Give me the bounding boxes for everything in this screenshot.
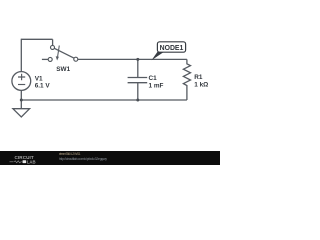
wire C1 top lead: [137, 59, 139, 77]
svg-text:elexm356 / L2 WS1: elexm356 / L2 WS1: [59, 152, 81, 156]
wire top-left horizontal: [21, 38, 52, 40]
node junction bottom (C1 tap): [136, 99, 139, 102]
svg-text:SW1: SW1: [56, 66, 70, 73]
svg-text:NODE1: NODE1: [160, 45, 184, 52]
switch SW1: [48, 45, 78, 61]
wire left vertical (top of V1): [20, 39, 22, 72]
node junction ground tap: [20, 99, 23, 102]
wire switch top lead: [52, 39, 54, 45]
svg-text:1 kΩ: 1 kΩ: [194, 81, 208, 88]
watermark bar: [0, 151, 220, 165]
wire switch left stub: [42, 58, 48, 60]
svg-text:1 mF: 1 mF: [149, 82, 164, 89]
svg-text:V1: V1: [35, 76, 43, 83]
wire C1 bottom lead: [137, 83, 139, 100]
svg-text:LAB: LAB: [27, 159, 36, 164]
wire V1 bottom lead: [20, 90, 22, 109]
wire bottom horizontal: [21, 99, 187, 101]
svg-text:R1: R1: [194, 74, 203, 81]
node NODE1 flag tail: [152, 52, 164, 61]
watermark logo second row: [10, 159, 36, 164]
ground: [13, 109, 30, 117]
capacitor C1 plates: [128, 78, 148, 83]
resistor R1: [183, 59, 190, 100]
svg-text:6.1 V: 6.1 V: [35, 83, 51, 90]
node junction top (C1 tap): [136, 58, 139, 61]
svg-text:C1: C1: [149, 75, 158, 82]
node NODE1 flag box: [157, 42, 185, 52]
svg-text:htip://circuitlab.com/c/pfw4c3: htip://circuitlab.com/c/pfw4c32egqwy: [59, 157, 107, 161]
wire mid horizontal (switch to R1): [78, 58, 187, 60]
voltage source V1 body: [12, 72, 31, 91]
